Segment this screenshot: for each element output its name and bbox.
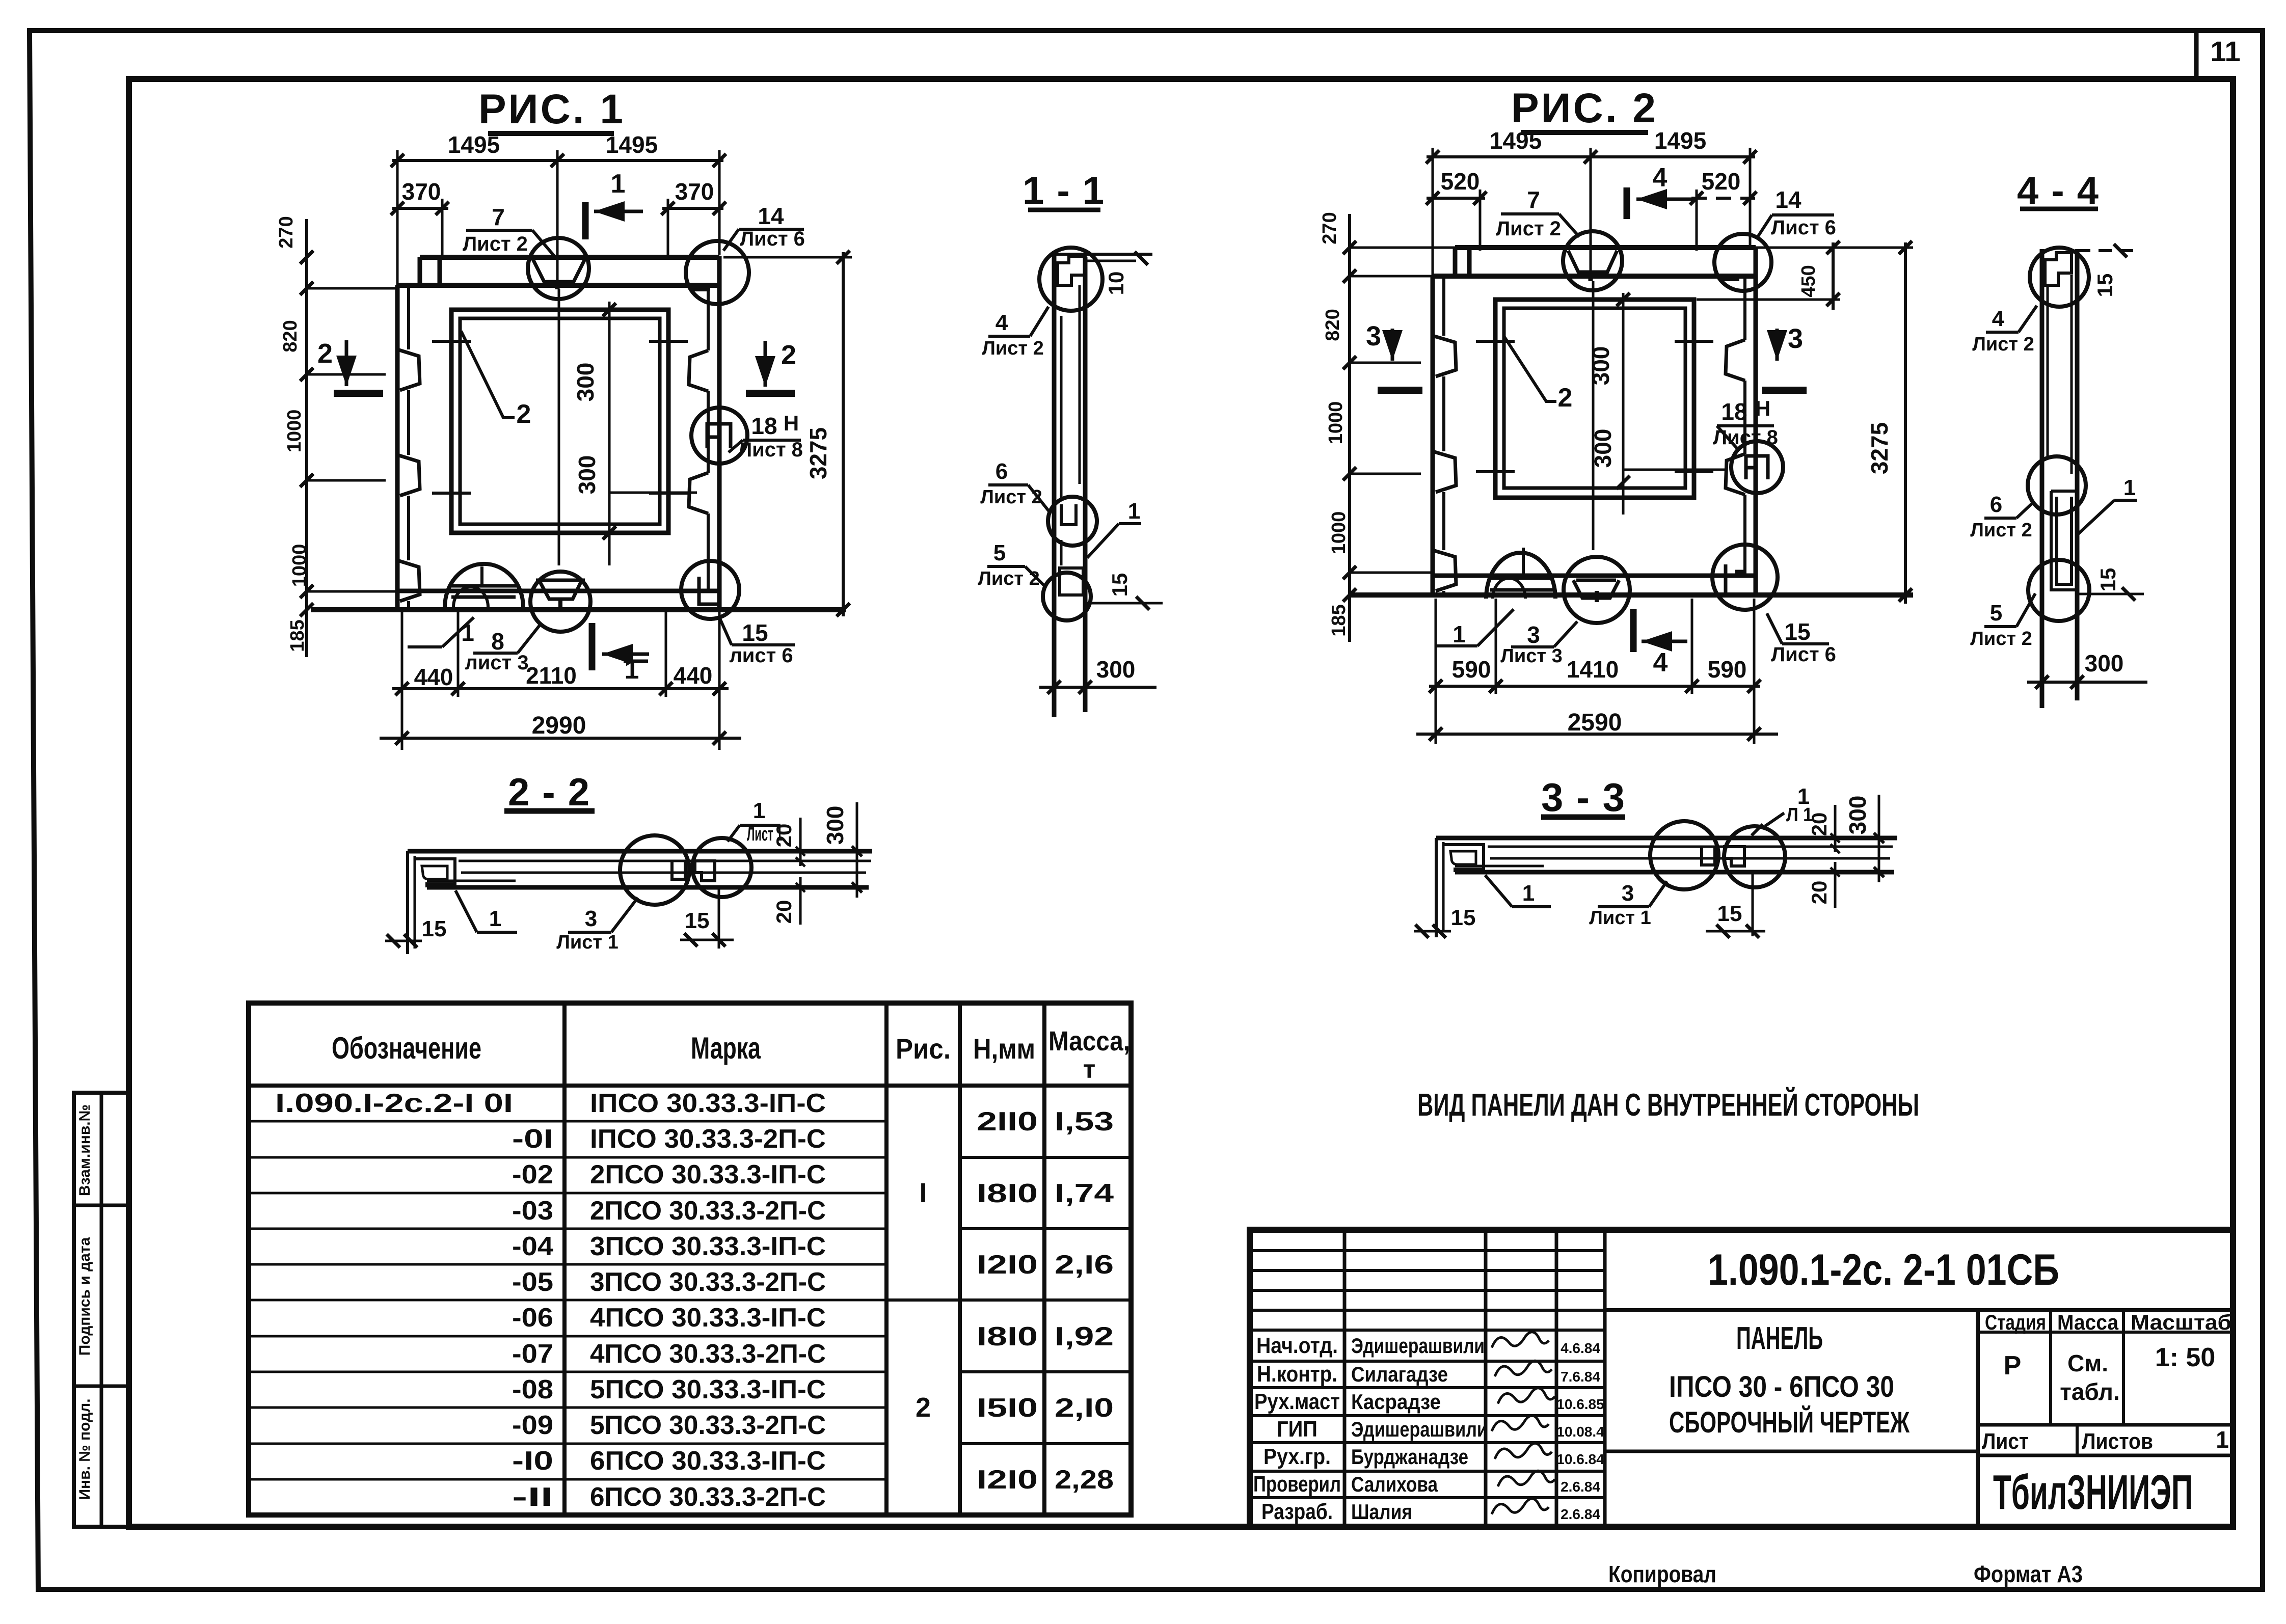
svg-text:590: 590 [1708,656,1747,683]
svg-text:I.090.I-2с.2-I 0I: I.090.I-2с.2-I 0I [275,1089,513,1118]
svg-text:2.6.84: 2.6.84 [1561,1506,1600,1522]
svg-text:-I0: -I0 [512,1446,553,1476]
svg-text:1: 1 [2216,1426,2229,1453]
svg-text:Инв. № подл.: Инв. № подл. [76,1398,93,1500]
svg-text:300: 300 [822,806,848,845]
svg-text:2II0: 2II0 [977,1107,1038,1136]
svg-text:5ПСО 30.33.3-2П-С: 5ПСО 30.33.3-2П-С [590,1411,826,1440]
svg-text:2: 2 [916,1392,931,1423]
svg-text:4.6.84: 4.6.84 [1561,1340,1600,1356]
svg-text:370: 370 [675,178,714,205]
svg-text:ГИП: ГИП [1277,1417,1317,1442]
section 3-3 detail circles [1650,821,1718,889]
fig1 left edge key tabs [397,349,420,390]
svg-text:Копировал: Копировал [1608,1561,1716,1587]
svg-text:I2I0: I2I0 [977,1465,1038,1495]
svg-text:520: 520 [1441,168,1480,195]
section 4-4 detail circle 6 [2028,456,2086,515]
svg-text:Обозначение: Обозначение [332,1031,481,1065]
svg-text:Эдишерашвили: Эдишерашвили [1351,1417,1488,1441]
svg-text:270: 270 [1319,212,1340,244]
svg-text:3ПСО 30.33.3-2П-С: 3ПСО 30.33.3-2П-С [590,1267,826,1297]
svg-text:1000: 1000 [1328,511,1350,555]
svg-text:8: 8 [491,628,504,655]
svg-text:20: 20 [1807,813,1831,836]
fig2 right overall dim 3275 [1904,242,1907,604]
fig2 section mark 4 bottom [1630,609,1637,652]
svg-text:185: 185 [287,619,308,652]
section 2-2 panel bar top edge [408,849,872,854]
fig2 window opening inner [1504,308,1685,488]
svg-text:3ПСО 30.33.3-IП-С: 3ПСО 30.33.3-IП-С [590,1232,826,1261]
section 1-1 detail circle 4 [1039,248,1102,311]
svg-text:4 - 4: 4 - 4 [2017,169,2100,212]
title block designation 1.090.1-2с.2-1 01СБ [1605,1308,2233,1312]
section 2-2 inner layer lines [459,860,871,862]
section 4-4 detail circle 5 [2028,560,2089,621]
svg-text:Р: Р [2004,1351,2022,1381]
svg-text:I,53: I,53 [1055,1107,1114,1136]
svg-text:Бурджанадзе: Бурджанадзе [1351,1445,1468,1469]
svg-text:Листов: Листов [2082,1429,2153,1454]
svg-text:Рух.гр.: Рух.гр. [1263,1444,1331,1469]
svg-text:15: 15 [1108,573,1132,597]
svg-text:Стадия: Стадия [1985,1310,2046,1334]
svg-text:Н,мм: Н,мм [973,1033,1035,1065]
section 3-3 right tail [1752,872,1754,936]
svg-text:РИС. 2: РИС. 2 [1511,85,1658,131]
section 1-1 dim 300 [1039,686,1157,689]
fig2 detail circle 18 [1731,441,1783,493]
svg-text:Лист 1: Лист 1 [556,932,618,953]
section 3-3 left end profile [1435,838,1438,937]
fig2 top dimension 1495+1495 [1427,155,1755,158]
svg-text:Шалия: Шалия [1351,1500,1412,1524]
svg-text:6: 6 [1990,492,2002,517]
section 2-2 panel bar bottom edge [427,885,869,890]
svg-text:7: 7 [492,204,505,230]
fig2 detail circle 14 [1714,234,1771,291]
fig2 circle7 key trapezoid [1568,251,1617,272]
section 4-4 key slot tall [2051,491,2077,590]
fig2 window opening outer [1495,300,1694,498]
svg-text:18: 18 [751,413,777,439]
fig2 circle18 key mark [1746,456,1768,479]
svg-text:6ПСО 30.33.3-2П-С: 6ПСО 30.33.3-2П-С [590,1482,826,1512]
svg-text:5: 5 [993,540,1006,565]
svg-text:3: 3 [1622,881,1634,906]
fig2 right dim 450 [1832,242,1835,310]
table header row line [249,1084,1131,1088]
fig2 detail circle 7 [1563,231,1622,290]
fig1 panel left edge inner [407,285,410,349]
svg-text:1410: 1410 [1567,656,1619,683]
svg-text:1: 1 [1128,499,1140,524]
svg-text:4: 4 [1992,306,2005,331]
svg-text:Лист 1: Лист 1 [1589,907,1651,929]
section 1-1 key pocket [1061,504,1076,525]
svg-text:Н: Н [784,411,799,435]
fig1 panel top-left step [418,257,422,285]
svg-text:14: 14 [758,203,784,229]
fig1 circle7 key trapezoid [533,259,585,282]
svg-text:1495: 1495 [448,131,500,158]
svg-text:300: 300 [574,455,600,495]
section 2-2 dim 300 [856,802,858,898]
svg-text:4: 4 [1653,648,1668,678]
table row lines [249,1120,886,1123]
svg-text:Эдишерашвили: Эдишерашвили [1351,1334,1485,1358]
fig2 left edge key tabs [1433,336,1456,376]
svg-text:Лист 8: Лист 8 [738,439,803,461]
fig1 overall dimension 2990 [380,737,741,740]
svg-text:15: 15 [2096,568,2120,592]
svg-text:2,I0: 2,I0 [1055,1393,1114,1423]
svg-text:3: 3 [585,906,597,931]
svg-text:3: 3 [1366,321,1381,351]
section 2-2 right tail [718,887,720,949]
svg-text:300: 300 [2085,650,2124,676]
svg-text:2ПСО 30.33.3-IП-С: 2ПСО 30.33.3-IП-С [590,1160,826,1189]
svg-text:300: 300 [1096,656,1136,683]
svg-text:10.08.4: 10.08.4 [1556,1424,1604,1440]
fig2 dim extension lines [1432,148,1434,278]
svg-text:15: 15 [1784,618,1810,645]
fig2 panel right edge outer [1754,248,1758,595]
fig2 section mark 4 top [1624,187,1630,219]
left margin stamp table [74,1093,129,1527]
svg-text:Лист 2: Лист 2 [982,338,1043,359]
svg-text:Лист 6: Лист 6 [1771,643,1836,666]
svg-text:1495: 1495 [1654,127,1706,154]
svg-text:2990: 2990 [532,712,586,739]
svg-text:3275: 3275 [1866,422,1893,474]
svg-text:т: т [1083,1055,1096,1084]
svg-text:-09: -09 [512,1411,553,1440]
svg-text:Рис.: Рис. [896,1033,951,1065]
fig2 window anchor marks [1476,340,1515,343]
svg-text:-04: -04 [512,1232,553,1261]
fig1 section mark 1 bottom [589,623,596,670]
svg-text:1: 1 [489,906,501,931]
section 1-1 lower key rect [1060,568,1083,595]
svg-text:5ПСО 30.33.3-IП-С: 5ПСО 30.33.3-IП-С [590,1375,826,1404]
svg-text:2590: 2590 [1568,709,1622,736]
svg-text:IПСО 30.33.3-IП-С: IПСО 30.33.3-IП-С [590,1089,826,1118]
svg-text:-06: -06 [512,1303,553,1333]
fig2 window internal dim 300/300 [1622,293,1625,515]
fig1 panel right edge outer [717,256,722,610]
section 3-3 panel bar top edge [1436,836,1897,841]
svg-text:СБОРОЧНЫЙ ЧЕРТЕЖ: СБОРОЧНЫЙ ЧЕРТЕЖ [1669,1406,1910,1439]
svg-text:I5I0: I5I0 [977,1393,1038,1423]
svg-text:10: 10 [1104,272,1128,295]
svg-text:7.6.84: 7.6.84 [1561,1369,1600,1385]
section 2-2 dim 20 top [784,821,785,851]
section 3-3 panel bar bottom edge [1455,870,1894,875]
section 3-3 dim 300 [1878,795,1880,882]
fig2 left dimension chain [1348,214,1351,642]
svg-text:IПСО 30.33.3-2П-С: IПСО 30.33.3-2П-С [590,1124,826,1154]
section 4-4 dim 300 [2027,681,2147,684]
svg-text:-07: -07 [512,1339,553,1369]
table column lines [562,1003,567,1515]
svg-text:2110: 2110 [526,662,577,689]
svg-text:820: 820 [280,320,301,352]
fig1 detail circle 8 [530,572,590,632]
svg-text:2: 2 [781,340,796,370]
section 1-1 detail circle 6 [1048,497,1097,546]
svg-text:4ПСО 30.33.3-IП-С: 4ПСО 30.33.3-IП-С [590,1303,826,1333]
fig2 panel bottom band top edge [1433,574,1756,578]
svg-text:6ПСО 30.33.3-IП-С: 6ПСО 30.33.3-IП-С [590,1446,826,1476]
fig2 bottom dimension 590/1410/590 [1429,685,1760,688]
svg-text:-05: -05 [512,1267,553,1297]
title block name cell [1605,1450,1978,1453]
section 2-2 detail circles [620,835,689,905]
svg-text:1000: 1000 [1325,401,1347,445]
fig1 left dimension chain [305,219,308,657]
svg-text:370: 370 [402,178,441,205]
svg-text:4: 4 [1653,163,1668,193]
fig1 circle8 key trapezoid [536,580,585,599]
section 3-3 dim 15 right [1706,930,1765,933]
fig1 detail circle 15 bottom [681,561,739,619]
fig1 window anchor marks [432,340,471,343]
svg-text:5: 5 [1990,601,2002,626]
svg-text:-03: -03 [512,1196,553,1226]
svg-text:Лист 2: Лист 2 [1496,218,1561,240]
fig2 panel top-left step [1453,248,1458,276]
fig1 window opening outer [451,310,668,533]
section 4-4 dim 15 [2077,593,2144,596]
svg-text:IПСО 30 - 6ПСО 30: IПСО 30 - 6ПСО 30 [1669,1370,1894,1403]
svg-text:-II: -II [512,1482,553,1512]
section 1-1 detail circle 5 [1043,573,1091,620]
svg-text:2,I6: 2,I6 [1055,1250,1114,1280]
fig1 circle18 key mark [707,424,731,448]
fig1 section mark 1 top [582,202,589,239]
fig2 panel left edge inner [1442,276,1445,336]
fig1 panel left edge outer [395,285,400,610]
fig2 corner detail dome [1486,553,1555,599]
svg-text:ТбилЗНИИЭП: ТбилЗНИИЭП [1993,1465,2193,1520]
svg-text:I8I0: I8I0 [977,1179,1038,1208]
fig2 panel left edge outer [1431,276,1435,595]
fig1 panel bottom band top edge [397,589,719,593]
svg-text:590: 590 [1452,656,1491,683]
fig1 right edge key tabs [689,350,708,391]
fig2 right edge key tabs [1726,340,1745,381]
fig2 detail circle 15 [1712,545,1778,610]
svg-text:Лист 6: Лист 6 [1771,216,1836,239]
fig2 circle15 key mark [1726,564,1745,595]
svg-text:ПАНЕЛЬ: ПАНЕЛЬ [1736,1321,1823,1356]
fig1 dim 370 right [662,207,723,210]
svg-text:Салихова: Салихова [1351,1472,1438,1496]
section 3-3 inner layer lines [1488,846,1893,848]
title block outer frame [1250,1230,2233,1527]
svg-text:2: 2 [517,399,531,429]
svg-text:6: 6 [996,459,1008,484]
svg-text:3: 3 [1788,323,1803,354]
fig1 top dimension line 1495+1495 [392,159,723,162]
svg-text:2: 2 [1558,383,1573,413]
svg-text:1495: 1495 [1490,127,1542,154]
svg-text:1000: 1000 [289,544,310,587]
svg-text:Касрадзе: Касрадзе [1351,1390,1441,1414]
svg-text:15: 15 [685,908,710,933]
svg-text:450: 450 [1798,265,1819,297]
svg-text:1495: 1495 [606,131,658,158]
fig2 circle14 weld mark [1721,274,1739,281]
svg-text:Лист 3: Лист 3 [1500,645,1562,667]
section 2-2 left end profile [406,851,409,954]
svg-text:-02: -02 [512,1160,553,1189]
parts table frame [249,1003,1131,1515]
svg-text:I8I0: I8I0 [977,1322,1038,1351]
svg-text:1: 1 [1522,881,1535,906]
svg-text:440: 440 [414,664,453,690]
section 1-1 panel bar [1052,254,1057,717]
fig2 detail circle 3 [1564,557,1630,623]
svg-text:РИС. 1: РИС. 1 [478,86,625,132]
svg-text:ВИД ПАНЕЛИ ДАН С ВНУТРЕННЕЙ СТ: ВИД ПАНЕЛИ ДАН С ВНУТРЕННЕЙ СТОРОНЫ [1417,1087,1919,1123]
section 4-4 detail circle 4 [2030,248,2089,307]
svg-text:820: 820 [1322,309,1343,341]
svg-text:18: 18 [1721,398,1747,425]
svg-text:300: 300 [572,363,599,402]
fig2 panel bottom edge [1350,592,1913,598]
section 2-2 dim 15 right [680,939,734,941]
section 3-3 key rects [1702,847,1715,865]
svg-text:Лист: Лист [1982,1429,2029,1454]
section 4-4 top hook detail [2077,249,2135,252]
svg-text:Лист 2: Лист 2 [1970,628,2032,649]
svg-text:-08: -08 [512,1375,553,1404]
svg-text:I,92: I,92 [1055,1322,1114,1351]
svg-text:Масштаб: Масштаб [2131,1310,2231,1334]
svg-text:Марка: Марка [691,1031,761,1065]
svg-text:300: 300 [1590,429,1616,468]
svg-text:3: 3 [1527,621,1540,648]
fig1 right overall dim 3275 [842,252,845,616]
svg-text:3275: 3275 [805,427,831,479]
svg-text:Нач.отд.: Нач.отд. [1256,1333,1338,1358]
svg-text:Н.контр.: Н.контр. [1257,1362,1337,1387]
svg-text:20: 20 [772,900,796,924]
svg-text:11: 11 [2210,35,2240,67]
svg-text:20: 20 [1807,881,1831,905]
svg-text:1.090.1-2с. 2-1 01СБ: 1.090.1-2с. 2-1 01СБ [1708,1246,2059,1294]
svg-text:I,74: I,74 [1055,1179,1114,1208]
fig1 panel top band lower edge [397,283,719,288]
svg-text:15: 15 [742,619,768,646]
svg-text:Лист 6: Лист 6 [740,228,805,250]
svg-text:Лист 8: Лист 8 [1713,426,1778,449]
section 2-2 dim 15 left [385,940,422,942]
svg-text:Проверил: Проверил [1253,1472,1341,1497]
title block лист row [1978,1423,2233,1427]
svg-text:Лист 2: Лист 2 [1972,334,2034,355]
svg-text:I: I [919,1178,927,1208]
fig2 circle3 key trapezoid [1573,580,1619,598]
svg-text:7: 7 [1527,186,1540,213]
svg-text:10.6.84: 10.6.84 [1556,1451,1604,1467]
svg-text:10.6.85: 10.6.85 [1556,1396,1604,1412]
fig1 circle15 key mark [699,577,718,604]
svg-text:2 - 2: 2 - 2 [508,771,590,814]
svg-text:1: 1 [1453,621,1466,647]
svg-text:Взам.инв.№: Взам.инв.№ [76,1104,93,1196]
svg-text:табл.: табл. [2060,1378,2119,1405]
fig1 dim 370 left [392,207,448,210]
section 2-2 key rects [672,861,685,879]
fig2 dim 520 left [1427,197,1485,200]
svg-text:1000: 1000 [284,410,305,453]
fig1 window opening inner [460,318,660,524]
svg-text:Рух.маст: Рух.маст [1254,1389,1340,1414]
svg-text:1: 1 [611,169,626,199]
svg-text:См.: См. [2067,1350,2108,1376]
fig2 panel top band lower edge [1433,274,1756,279]
fig1 corner detail dome 1 [445,564,523,607]
fig2 overall dimension 2590 [1416,733,1778,736]
svg-text:Силагадзе: Силагадзе [1351,1362,1448,1386]
svg-text:14: 14 [1775,186,1801,213]
section 4-4 panel bar [2040,249,2045,708]
svg-text:Разраб.: Разраб. [1261,1499,1333,1524]
svg-text:15: 15 [2093,274,2117,297]
svg-text:2,28: 2,28 [1055,1465,1114,1495]
svg-text:Лист 2: Лист 2 [1970,520,2032,541]
svg-text:-0I: -0I [512,1124,553,1154]
svg-text:1: 1 [753,798,765,823]
svg-text:3 - 3: 3 - 3 [1541,775,1626,820]
svg-text:20: 20 [772,824,796,848]
fig2 panel right edge inner [1743,276,1746,340]
title block signature grid [1343,1230,1347,1527]
svg-text:300: 300 [1588,346,1614,386]
fig1 dim extension lines [396,150,399,285]
fig1 panel top edge [420,255,719,260]
svg-text:Масса,: Масса, [1048,1026,1130,1057]
fig1 panel bottom edge [311,607,846,612]
svg-text:лист 3: лист 3 [465,652,528,674]
svg-text:2.6.84: 2.6.84 [1561,1479,1600,1495]
section 1-1 dim 15 [1085,602,1163,605]
svg-text:4ПСО 30.33.3-2П-С: 4ПСО 30.33.3-2П-С [590,1339,826,1369]
svg-text:Масса: Масса [2057,1310,2119,1334]
svg-text:15: 15 [1717,901,1742,926]
svg-text:Формат А3: Формат А3 [1974,1561,2083,1587]
svg-text:4: 4 [996,310,1008,335]
svg-text:185: 185 [1328,604,1350,636]
fig1 window internal dim 300/300 [608,302,611,565]
svg-text:лист 6: лист 6 [729,644,793,667]
fig1 panel right edge inner [707,285,710,350]
fig1 detail circle 18 [691,408,747,464]
svg-text:300: 300 [1844,796,1871,835]
section 1-1 top hook detail [1054,253,1152,256]
fig1 circle14 weld mark [692,284,710,291]
svg-text:1: 50: 1: 50 [2155,1343,2216,1372]
fig2 panel top edge [1455,245,1756,250]
svg-text:Подпись и дата: Подпись и дата [76,1237,93,1356]
fig1 detail circle 14 [686,241,749,304]
svg-text:520: 520 [1702,168,1741,195]
title block stage/mass/scale [1978,1331,2233,1334]
